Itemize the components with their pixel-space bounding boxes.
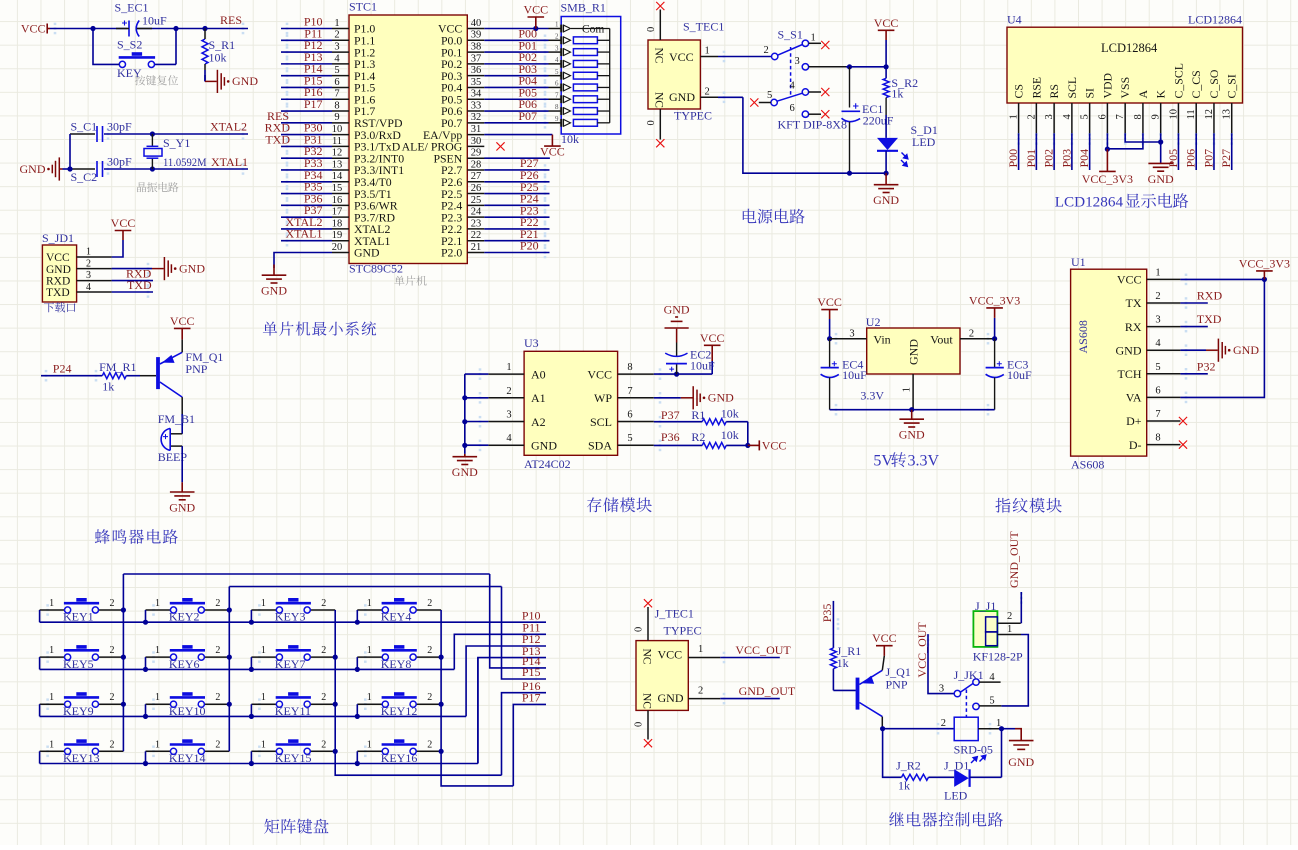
svg-text:VCC: VCC <box>540 145 565 159</box>
svg-text:KF128-2P: KF128-2P <box>973 650 1023 664</box>
svg-text:13: 13 <box>1222 109 1233 120</box>
svg-text:5: 5 <box>627 433 632 444</box>
svg-text:AS608: AS608 <box>1076 320 1090 353</box>
svg-text:1: 1 <box>902 387 913 392</box>
pins 1-4 (U3) <box>488 373 524 375</box>
connector J_TEC1 body <box>636 641 688 711</box>
ground GND (reset) <box>204 75 206 81</box>
svg-text:NC: NC <box>653 48 665 64</box>
wire coil left <box>883 728 955 730</box>
crystal S_Y1 <box>151 134 153 146</box>
svg-text:RXD: RXD <box>46 276 70 288</box>
svg-text:7: 7 <box>555 91 559 99</box>
LED J_D1 <box>954 769 969 787</box>
wire collector to coil <box>881 717 883 729</box>
svg-text:2: 2 <box>215 598 220 609</box>
ground GND (U3) <box>464 445 466 454</box>
svg-text:LED: LED <box>944 789 968 803</box>
svg-text:GND: GND <box>873 193 899 207</box>
svg-text:9: 9 <box>1151 114 1162 119</box>
svg-text:XTAL2: XTAL2 <box>210 120 247 134</box>
svg-text:GND_OUT: GND_OUT <box>1007 531 1021 588</box>
svg-text:GND_OUT: GND_OUT <box>739 684 796 698</box>
svg-text:10k: 10k <box>721 428 739 442</box>
svg-text:1: 1 <box>155 739 160 750</box>
junction EC1 top <box>847 64 852 69</box>
svg-text:VCC: VCC <box>874 16 899 30</box>
svg-text:1: 1 <box>705 46 710 57</box>
resistor R1 <box>702 419 726 425</box>
svg-text:2: 2 <box>764 45 769 56</box>
svg-text:VCC: VCC <box>669 50 694 64</box>
svg-text:14: 14 <box>332 171 343 182</box>
svg-text:P20: P20 <box>520 239 539 253</box>
svg-text:1: 1 <box>334 18 339 29</box>
svg-text:5: 5 <box>767 90 772 101</box>
svg-text:1: 1 <box>555 21 559 29</box>
svg-text:37: 37 <box>471 53 482 64</box>
pin 2 (J_TEC1) <box>688 698 720 700</box>
pin 20 (STC1) <box>332 252 349 254</box>
svg-text:VCC: VCC <box>21 22 46 36</box>
no connect contact6 <box>821 110 829 118</box>
svg-text:5: 5 <box>555 68 559 76</box>
svg-text:VCC: VCC <box>111 216 136 230</box>
svg-text:NC: NC <box>653 92 665 108</box>
junction VDD <box>1105 147 1110 152</box>
svg-text:P35: P35 <box>820 604 834 623</box>
svg-text:STC1: STC1 <box>349 0 377 14</box>
no connect pin30 <box>496 142 504 150</box>
ground GND (STC1) <box>262 265 287 284</box>
svg-text:1: 1 <box>86 246 91 257</box>
svg-text:AT24C02: AT24C02 <box>524 457 571 471</box>
wire pin20 GND <box>274 253 332 268</box>
svg-text:GND: GND <box>261 284 287 298</box>
transistor FM_Q1 <box>156 357 160 389</box>
svg-text:5: 5 <box>1080 114 1091 119</box>
ground GND (U2) <box>899 410 924 427</box>
junction node A <box>90 26 95 31</box>
wire J_J1 pin1 to contact 5 <box>1001 635 1028 706</box>
svg-text:2: 2 <box>110 739 115 750</box>
svg-text:RS: RS <box>1047 84 1061 98</box>
svg-text:PNP: PNP <box>886 677 908 691</box>
svg-text:4: 4 <box>334 53 340 64</box>
svg-text:3: 3 <box>849 329 854 340</box>
svg-text:3: 3 <box>1155 315 1160 326</box>
junction GND (U2) <box>909 407 914 412</box>
svg-text:1: 1 <box>261 598 266 609</box>
svg-text:VDD: VDD <box>1100 72 1114 98</box>
comment 晶振电路 <box>137 182 179 192</box>
svg-text:1: 1 <box>49 739 54 750</box>
svg-text:10uF: 10uF <box>842 368 867 382</box>
svg-text:2: 2 <box>334 30 339 41</box>
resistor S_R1 <box>202 39 208 64</box>
wire bottom rail (power) <box>743 97 886 173</box>
svg-text:1: 1 <box>367 598 372 609</box>
wire row3 to VCC rail <box>846 66 886 68</box>
svg-text:4: 4 <box>989 672 995 683</box>
pin 3 (U2) <box>830 338 867 340</box>
svg-text:P00: P00 <box>1006 149 1020 168</box>
svg-text:1k: 1k <box>837 656 849 670</box>
wire VA net <box>1180 279 1264 397</box>
label 下载口 <box>44 302 75 312</box>
relay arrows <box>971 755 986 763</box>
svg-text:11: 11 <box>332 136 342 147</box>
svg-text:0: 0 <box>634 627 645 632</box>
wire GND_OUT (relay) <box>1020 592 1022 623</box>
switch S_S1 <box>771 40 809 117</box>
svg-text:1k: 1k <box>891 87 903 101</box>
svg-text:P07: P07 <box>1201 149 1215 168</box>
capacitor EC1 <box>849 67 851 108</box>
svg-text:VCC: VCC <box>762 439 787 453</box>
svg-text:2: 2 <box>86 258 91 269</box>
junction R2-VCC <box>745 443 750 448</box>
pins 1-19 (STC1) <box>332 28 349 30</box>
svg-text:5: 5 <box>989 695 994 706</box>
svg-text:4: 4 <box>506 433 512 444</box>
wire left vertical <box>69 134 71 169</box>
junction node XTAL2 <box>150 131 155 136</box>
svg-text:VCC: VCC <box>872 631 897 645</box>
svg-text:2: 2 <box>1155 291 1160 302</box>
svg-text:27: 27 <box>471 171 482 182</box>
switch S_S2 KEY <box>93 29 118 65</box>
connector S_JD1 <box>42 245 76 302</box>
svg-text:8: 8 <box>1133 114 1144 119</box>
svg-text:GND: GND <box>899 428 925 442</box>
wire pin2 RXD <box>1180 302 1207 304</box>
svg-text:28: 28 <box>471 159 482 170</box>
svg-text:10k: 10k <box>209 51 227 65</box>
svg-text:9: 9 <box>334 112 339 123</box>
pin 1 (J_J1) <box>997 634 1021 636</box>
svg-text:PNP: PNP <box>185 362 207 376</box>
pin 1 (S_TEC1) <box>700 56 718 58</box>
switch J_JK1 <box>954 679 979 717</box>
svg-text:R2: R2 <box>691 430 705 444</box>
svg-text:RES: RES <box>220 13 242 27</box>
svg-text:VCC_3V3: VCC_3V3 <box>1082 172 1133 186</box>
svg-text:2: 2 <box>215 739 220 750</box>
svg-text:C_CS: C_CS <box>1189 70 1203 98</box>
svg-text:1: 1 <box>49 598 54 609</box>
svg-text:P01: P01 <box>1024 149 1038 168</box>
svg-text:3.3V: 3.3V <box>860 389 884 403</box>
svg-text:15: 15 <box>332 183 343 194</box>
svg-text:5: 5 <box>1155 362 1160 373</box>
capacitor EC2 <box>676 329 678 343</box>
svg-text:1: 1 <box>49 645 54 656</box>
svg-text:2: 2 <box>1007 611 1012 622</box>
svg-text:TCH: TCH <box>1118 367 1142 381</box>
svg-text:A2: A2 <box>531 415 546 429</box>
capacitor S_C2 <box>96 161 98 177</box>
svg-text:7: 7 <box>627 386 632 397</box>
no connect top (J_TEC1) <box>644 599 652 607</box>
wire pin7 WP <box>654 397 681 399</box>
resistor FM_R1 <box>102 373 126 379</box>
junction coil right <box>999 726 1004 731</box>
junction pin40 <box>533 26 538 31</box>
ground GND (U4) <box>1148 163 1173 171</box>
wires P27-P20 <box>484 169 549 171</box>
svg-text:P24: P24 <box>53 361 72 375</box>
svg-text:GND: GND <box>1008 755 1034 769</box>
svg-text:6: 6 <box>627 410 632 421</box>
svg-text:U4: U4 <box>1007 13 1022 27</box>
junction node XTAL1 <box>150 166 155 171</box>
power port VCC_3V3 (U4) <box>1106 149 1108 171</box>
wire buzzer to GND <box>181 446 183 482</box>
svg-text:4: 4 <box>555 56 559 64</box>
pin 1 (J_TEC1) <box>688 657 720 659</box>
svg-text:J_J1: J_J1 <box>975 599 996 613</box>
svg-text:Vout: Vout <box>930 332 953 346</box>
svg-text:SI: SI <box>1083 88 1097 99</box>
wire VCC_OUT (relay) <box>928 634 954 694</box>
wires to net labels P10-P17 <box>477 658 479 764</box>
power port VCC (relay) <box>876 646 893 656</box>
title 继电器控制电路 <box>889 812 1003 827</box>
title 蜂鸣器电路 <box>95 529 178 544</box>
svg-text:LCD12864: LCD12864 <box>1101 41 1158 55</box>
svg-text:1: 1 <box>1155 267 1160 278</box>
svg-text:31: 31 <box>471 124 482 135</box>
wire pin5 TCH <box>1180 373 1207 375</box>
wires left (STC1) <box>281 28 332 30</box>
svg-text:20: 20 <box>332 242 343 253</box>
power port VCC (rail) <box>878 30 895 40</box>
junction GND (U3) <box>462 443 467 448</box>
no connect D+ <box>1179 417 1187 425</box>
svg-text:TX: TX <box>1126 296 1142 310</box>
resistor J_R2 <box>883 729 902 778</box>
svg-text:10uF: 10uF <box>690 359 715 373</box>
pin 2 (S_TEC1) <box>700 96 718 98</box>
svg-text:26: 26 <box>471 183 482 194</box>
wire pin3 TXD <box>1180 326 1207 328</box>
junction K <box>1158 139 1163 144</box>
svg-text:6: 6 <box>555 80 559 88</box>
svg-text:12: 12 <box>332 148 343 159</box>
buzzer FM_B1 <box>171 433 183 435</box>
wire VCC-RES <box>50 28 128 30</box>
wires P00-P07 <box>484 39 548 41</box>
wire pin5 SDA <box>654 444 702 446</box>
svg-text:S_Y1: S_Y1 <box>163 136 190 150</box>
svg-text:2: 2 <box>110 692 115 703</box>
svg-text:P36: P36 <box>661 430 680 444</box>
svg-text:VCC_3V3: VCC_3V3 <box>969 293 1020 307</box>
svg-text:VA: VA <box>1126 391 1142 405</box>
svg-text:23: 23 <box>471 218 482 229</box>
svg-text:1: 1 <box>155 692 160 703</box>
ground GND (crystal) <box>52 157 62 180</box>
connector S_TEC1 body <box>648 40 700 109</box>
svg-text:12: 12 <box>1204 109 1215 120</box>
svg-text:36: 36 <box>471 65 482 76</box>
pins 1-8 (U1) <box>1147 278 1181 280</box>
LED S_D1 <box>877 138 898 150</box>
wire pin40 VCC <box>484 28 548 30</box>
svg-text:S_C2: S_C2 <box>71 170 98 184</box>
svg-text:38: 38 <box>471 41 482 52</box>
wire P35 <box>832 601 834 648</box>
svg-text:VCC_OUT: VCC_OUT <box>735 643 791 657</box>
svg-text:SCL: SCL <box>590 415 612 429</box>
svg-text:2: 2 <box>941 718 946 729</box>
svg-text:GND: GND <box>658 691 684 705</box>
svg-text:21: 21 <box>471 242 482 253</box>
svg-text:1: 1 <box>698 644 703 655</box>
wires row buses (keyboard) <box>39 610 41 622</box>
svg-text:VSS: VSS <box>1118 77 1132 99</box>
svg-text:FM_R1: FM_R1 <box>99 360 136 374</box>
svg-text:P31: P31 <box>304 132 323 146</box>
svg-text:P27: P27 <box>1219 149 1233 168</box>
svg-text:STC89C52: STC89C52 <box>349 262 403 276</box>
svg-text:2: 2 <box>698 686 703 697</box>
wire pin4 GND <box>1180 349 1206 351</box>
svg-text:LCD12864: LCD12864 <box>1188 13 1242 27</box>
svg-text:24: 24 <box>471 207 482 218</box>
ground GND (EC2) <box>665 317 689 328</box>
svg-text:2: 2 <box>215 645 220 656</box>
svg-text:RSE: RSE <box>1029 77 1043 99</box>
junction A1 <box>462 395 467 400</box>
svg-text:VCC: VCC <box>1117 273 1142 287</box>
svg-text:11: 11 <box>1186 109 1197 119</box>
svg-text:10k: 10k <box>561 132 579 146</box>
svg-text:P17: P17 <box>522 691 541 705</box>
svg-text:2: 2 <box>110 645 115 656</box>
svg-text:TXD: TXD <box>46 287 70 299</box>
svg-text:40: 40 <box>471 18 482 29</box>
capacitor EC3 <box>994 339 996 368</box>
resistor network SMB_R1 body <box>561 17 621 135</box>
IC U1 body <box>1071 269 1147 456</box>
svg-text:3: 3 <box>939 684 944 695</box>
wire pin1 VCC_3V3 <box>1180 278 1264 280</box>
junction rail bottom <box>884 171 889 176</box>
svg-text:VCC: VCC <box>817 295 842 309</box>
svg-text:C_SCL: C_SCL <box>1171 63 1185 98</box>
no connect contact4 <box>821 88 829 96</box>
comment 单片机 <box>394 276 426 286</box>
pin 1 (U2) <box>912 374 914 410</box>
svg-text:2: 2 <box>506 386 511 397</box>
svg-text:1: 1 <box>367 739 372 750</box>
svg-text:P07: P07 <box>518 109 537 123</box>
svg-text:2: 2 <box>427 598 432 609</box>
svg-text:P06: P06 <box>1184 149 1198 168</box>
svg-text:A1: A1 <box>531 391 546 405</box>
svg-text:SMB_R1: SMB_R1 <box>561 1 606 15</box>
no connect bottom (J_TEC1) <box>644 739 652 747</box>
svg-text:3: 3 <box>334 41 339 52</box>
wire VSS-K to GND <box>1125 133 1161 142</box>
svg-text:0: 0 <box>634 722 645 727</box>
svg-text:LED: LED <box>912 135 936 149</box>
wire XTAL2 net <box>70 133 95 135</box>
svg-text:6: 6 <box>790 103 795 114</box>
no connect top (S_TEC1) <box>656 2 664 10</box>
svg-text:16: 16 <box>332 195 343 206</box>
svg-text:VCC: VCC <box>658 647 683 661</box>
resistor J_R1 <box>830 648 836 669</box>
junction EC1 bottom <box>847 171 852 176</box>
resistor S_R2 <box>885 67 887 79</box>
svg-text:D+: D+ <box>1126 414 1142 428</box>
svg-text:TXD: TXD <box>1197 312 1222 326</box>
svg-text:K: K <box>1154 90 1168 99</box>
power port VCC (pin31) <box>544 135 561 147</box>
svg-text:6: 6 <box>1097 114 1108 119</box>
svg-text:FM_B1: FM_B1 <box>158 412 195 426</box>
no connect D- <box>1179 441 1187 449</box>
title 指纹模块 <box>995 498 1061 513</box>
svg-text:2: 2 <box>427 739 432 750</box>
svg-text:GND: GND <box>669 90 695 104</box>
svg-text:KFT DIP-8X8: KFT DIP-8X8 <box>778 118 847 132</box>
svg-text:NC: NC <box>641 693 653 709</box>
svg-text:25: 25 <box>471 195 482 206</box>
svg-text:P04: P04 <box>1077 149 1091 168</box>
pins 40-21 (STC1) <box>467 28 484 30</box>
wire XTAL1 net <box>70 168 95 170</box>
svg-text:1: 1 <box>155 598 160 609</box>
ground GND (S_JD1) <box>152 257 171 280</box>
svg-text:8: 8 <box>334 100 339 111</box>
title 矩阵键盘 <box>264 819 328 834</box>
svg-text:P37: P37 <box>661 408 680 422</box>
wire left bus (U3) <box>464 374 466 445</box>
svg-text:Com: Com <box>582 23 604 35</box>
svg-text:VCC_OUT: VCC_OUT <box>915 622 929 678</box>
svg-text:22: 22 <box>471 230 482 241</box>
junction node B <box>173 26 178 31</box>
wires column buses (keyboard) <box>122 574 124 751</box>
svg-text:29: 29 <box>471 148 482 159</box>
pin 0 bottom (J_TEC1) <box>647 710 649 739</box>
svg-text:2: 2 <box>427 645 432 656</box>
svg-text:1: 1 <box>1009 114 1020 119</box>
svg-text:C_SO: C_SO <box>1207 69 1221 98</box>
svg-text:8: 8 <box>627 362 632 373</box>
svg-text:2: 2 <box>555 32 559 40</box>
power port VCC (SMB) <box>528 17 545 29</box>
svg-text:TXD: TXD <box>265 132 290 146</box>
svg-text:S_EC1: S_EC1 <box>115 1 149 15</box>
power port VCC (U2) <box>821 310 838 319</box>
svg-text:4: 4 <box>790 81 796 92</box>
wires and net labels (U4) <box>1018 133 1020 170</box>
junction VCC (U1) <box>1262 277 1267 282</box>
svg-text:R1: R1 <box>691 408 705 422</box>
wire bottom rail (U2) <box>830 409 995 411</box>
power port VCC (S_JD1) <box>115 231 132 241</box>
svg-text:4: 4 <box>1062 114 1073 120</box>
svg-text:18: 18 <box>332 218 343 229</box>
power port VCC (SDA) <box>748 444 760 446</box>
junction Vout <box>992 336 997 341</box>
power port VCC_3V3 (U1) <box>1256 271 1273 280</box>
